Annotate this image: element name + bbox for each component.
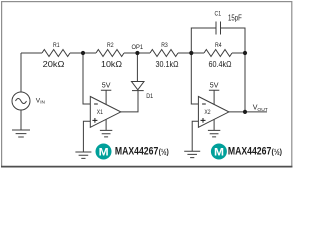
- 5V supply X1: [101, 90, 111, 105]
- svg-text:(½): (½): [159, 146, 169, 156]
- wire X2 noninverting input to ground: [192, 121, 198, 151]
- op-amp X1: [90, 97, 121, 128]
- 5V supply X2: [209, 90, 219, 105]
- svg-text:5V: 5V: [210, 82, 219, 90]
- svg-text:MAX44267: MAX44267: [115, 145, 158, 157]
- Maxim logo 1: [96, 144, 112, 160]
- ground VIN: [12, 130, 30, 137]
- capacitor C1 branch right wire: [221, 28, 246, 53]
- wire R2 to R3: [124, 52, 150, 54]
- svg-text:15pF: 15pF: [228, 14, 242, 23]
- svg-text:D1: D1: [146, 93, 153, 100]
- svg-text:MAX44267: MAX44267: [228, 145, 271, 157]
- voltage source VIN sine: [16, 99, 27, 104]
- border frame: [2, 2, 292, 167]
- op-amp X2: [198, 97, 229, 128]
- svg-text:C1: C1: [215, 11, 222, 18]
- junction node R3/R4: [189, 51, 193, 55]
- wire X2 output to VOUT: [229, 111, 267, 113]
- ground X1 noninverting: [75, 152, 91, 158]
- svg-text:20kΩ: 20kΩ: [43, 60, 65, 69]
- svg-text:M: M: [99, 146, 109, 158]
- diode D1: [132, 82, 145, 90]
- svg-text:X1: X1: [97, 109, 104, 116]
- svg-text:30.1kΩ: 30.1kΩ: [156, 60, 179, 69]
- svg-text:10kΩ: 10kΩ: [101, 60, 122, 69]
- svg-text:R1: R1: [53, 42, 60, 49]
- op-amp X2 inverting/non-inverting input signs: [201, 104, 206, 123]
- wire R3 to R4: [178, 52, 204, 54]
- svg-text:(½): (½): [272, 146, 283, 156]
- wire feedback node down to X1 inverting input: [83, 53, 90, 104]
- ground X2 under triangle: [208, 120, 220, 137]
- resistor R2: [96, 50, 124, 57]
- svg-text:X2: X2: [204, 109, 211, 116]
- resistor R3: [150, 50, 178, 57]
- svg-text:5V: 5V: [102, 82, 111, 90]
- svg-text:M: M: [214, 146, 224, 158]
- wire R1 to R2: [70, 52, 96, 54]
- svg-text:R3: R3: [161, 42, 168, 49]
- capacitor C1 plates: [216, 22, 221, 35]
- wire R4 to right node: [232, 52, 245, 54]
- ground X2 noninverting: [184, 151, 200, 157]
- junction node R4 right: [243, 51, 247, 55]
- junction node OP1: [135, 51, 139, 55]
- junction node on rail at feedback: [81, 51, 85, 55]
- wire X1 output to diode cathode: [121, 91, 138, 112]
- Maxim logo 2: [211, 144, 227, 160]
- wire VIN down to ground: [20, 110, 22, 130]
- resistor R1: [42, 50, 70, 57]
- wire X1 noninverting input to ground: [83, 121, 90, 152]
- capacitor C1 branch left wire: [191, 28, 216, 53]
- op-amp X1 inverting/non-inverting input signs: [92, 104, 97, 123]
- svg-text:OP1: OP1: [132, 44, 144, 51]
- svg-text:R2: R2: [107, 42, 114, 49]
- ground X1 under triangle: [100, 120, 112, 137]
- border bottom thick line: [1, 166, 292, 168]
- wire right node down to output: [244, 53, 246, 112]
- wire node2 down to X2 inverting input: [191, 53, 198, 104]
- svg-text:R4: R4: [215, 42, 222, 49]
- wire main horizontal top rail: [21, 52, 42, 54]
- resistor R4: [204, 50, 232, 57]
- junction node VOUT: [243, 110, 247, 114]
- wire VIN up to rail: [20, 53, 22, 92]
- wire OP1 node down to diode anode: [136, 53, 138, 82]
- svg-text:60.4kΩ: 60.4kΩ: [209, 60, 232, 69]
- voltage source VIN circle: [12, 92, 30, 110]
